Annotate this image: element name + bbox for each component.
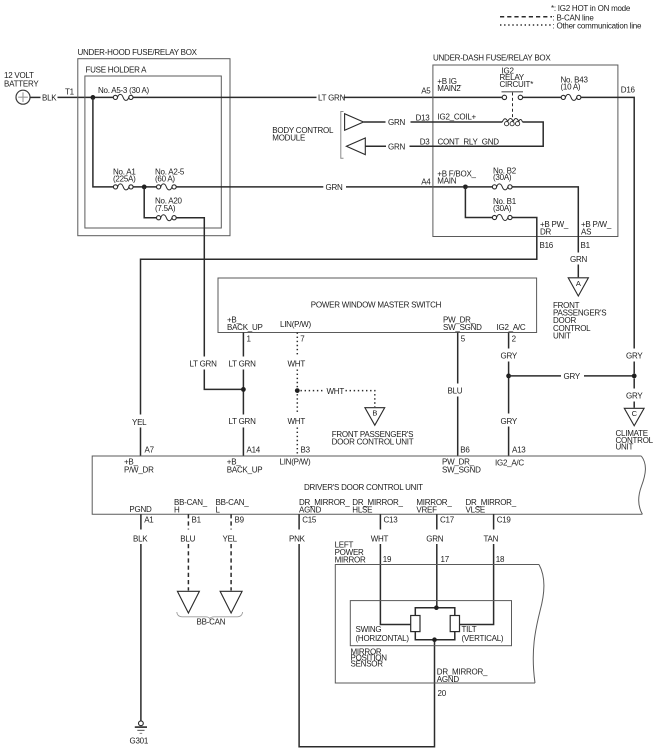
svg-text:BATTERY: BATTERY [4, 79, 39, 88]
wire LT GRN label through junction [242, 370, 244, 415]
svg-text:MIRROR: MIRROR [335, 556, 366, 565]
legend: B-CAN line dashed sample [500, 16, 552, 18]
svg-text:PGND: PGND [129, 505, 152, 514]
svg-text:GRN: GRN [326, 183, 344, 192]
B-CAN arrow (YEL) [220, 591, 242, 613]
svg-text:GRN: GRN [388, 118, 406, 127]
svg-text:A: A [576, 279, 581, 288]
svg-text:D13: D13 [416, 113, 431, 122]
wire right junction down to GRY label [633, 378, 635, 388]
svg-text:LT GRN: LT GRN [229, 359, 257, 368]
svg-text:UNDER-DASH FUSE/RELAY BOX: UNDER-DASH FUSE/RELAY BOX [433, 54, 551, 63]
svg-text:BB-CAN_: BB-CAN_ [216, 498, 250, 507]
wire B1 dashed stub to BLU label [187, 514, 189, 529]
svg-text:LIN(P/W): LIN(P/W) [280, 458, 311, 467]
svg-text:SWING: SWING [356, 625, 382, 634]
connector triangle C (climate control unit) [624, 408, 644, 426]
wire relay coil return to CONT_RLY_GND (D3) [410, 122, 544, 146]
body control module bracket [341, 112, 344, 159]
svg-text:(225A): (225A) [113, 174, 136, 183]
svg-text:LT GRN: LT GRN [190, 359, 218, 368]
wire fuse A2-5 to GRN label [176, 186, 323, 188]
wire GRN label to under-dash A4 [346, 186, 463, 188]
wire fuse A1 to junction [133, 186, 156, 188]
svg-text:19: 19 [383, 555, 392, 564]
svg-text:BLU: BLU [180, 534, 195, 543]
svg-text:CIRCUIT*: CIRCUIT* [500, 80, 534, 89]
wire GRY label to A13 [508, 427, 510, 457]
svg-text:A7: A7 [145, 446, 155, 455]
wire C15 stub to PNK label [298, 514, 300, 529]
driver's door control unit box (torn right edge) [92, 456, 642, 514]
svg-text:A4: A4 [421, 178, 431, 187]
wire dotted branch to WHT label [301, 390, 325, 392]
svg-text:(30A): (30A) [493, 204, 512, 213]
svg-text:G301: G301 [130, 736, 149, 745]
svg-text:IG2_A/C: IG2_A/C [495, 459, 524, 468]
svg-text:MAIN: MAIN [437, 177, 456, 186]
node A4 branch junction [463, 184, 468, 189]
svg-text:GRY: GRY [501, 417, 518, 426]
legend: other communication line dotted sample [500, 24, 552, 26]
B-CAN arrow (BLU) [177, 591, 199, 613]
wire PNK label to mirror AGND pin 20 [299, 544, 434, 747]
wire dashed YEL to B-CAN arrow [230, 544, 232, 591]
node fuse A1 output junction [142, 185, 147, 190]
svg-text:A5: A5 [421, 87, 431, 96]
svg-text:B16: B16 [540, 241, 554, 250]
left power mirror box (torn right edge) [335, 565, 539, 684]
power window master switch box [218, 278, 537, 333]
svg-text:B6: B6 [460, 446, 470, 455]
wire junction down to fuse A20 row [144, 187, 156, 218]
svg-text:D3: D3 [420, 137, 431, 146]
wire LT GRN label to A14 [242, 428, 244, 457]
svg-text:18: 18 [496, 555, 505, 564]
svg-text:H: H [174, 506, 180, 515]
tilt (vertical) sensor element [450, 616, 459, 632]
svg-text:VLSE: VLSE [466, 506, 485, 515]
wire LT GRN label to junction at power window switch feed [204, 370, 243, 390]
mirror position sensor box [350, 601, 511, 646]
fuse holder A box [85, 76, 221, 228]
svg-text:B: B [372, 409, 377, 418]
relay contact [502, 95, 506, 99]
svg-text:P/W_DR: P/W_DR [124, 465, 154, 474]
wire junction to fuse B2 [465, 186, 492, 188]
svg-text:VREF: VREF [416, 506, 437, 515]
sensor top rail [415, 608, 455, 616]
svg-text:YEL: YEL [132, 418, 147, 427]
wire GRN label to relay coil [411, 121, 503, 123]
svg-text:BLK: BLK [133, 534, 148, 543]
node backup feed junction [241, 387, 246, 392]
wire BLK label to ground [140, 544, 142, 721]
svg-text:20: 20 [438, 689, 447, 698]
wire junction down to fuse B1 [465, 187, 492, 218]
svg-text:FUSE HOLDER A: FUSE HOLDER A [86, 66, 148, 75]
svg-text:BLU: BLU [448, 386, 463, 395]
node agnd junction [432, 637, 437, 642]
svg-text:UNDER-HOOD FUSE/RELAY BOX: UNDER-HOOD FUSE/RELAY BOX [78, 48, 198, 57]
wire junction to GRY label (horizontal) [509, 375, 561, 377]
svg-text:AGND: AGND [437, 675, 460, 684]
connector triangle B (front passenger's door control unit) [365, 408, 385, 426]
wire triangle to GRN label (D13) [364, 121, 386, 123]
wire B9 dashed stub to YEL label [230, 514, 232, 529]
wire GRY label to junction [633, 362, 635, 374]
svg-text:MAIN2: MAIN2 [437, 84, 461, 93]
svg-text:SENSOR: SENSOR [351, 660, 384, 669]
wire pin1 to LT GRN label [242, 333, 244, 357]
wire dashed BLU to B-CAN arrow [187, 544, 189, 591]
wire fuse B1 to B16 pin (+B PW_DR) then left [141, 218, 537, 415]
wire fuse A20 output down to LT GRN label [176, 218, 204, 357]
wire C13 stub to WHT label [379, 514, 381, 529]
wire LT GRN label to under-dash A5 / relay contact [344, 96, 503, 98]
svg-text:GRN: GRN [570, 255, 588, 264]
buffer input triangle (CONT_RLY_GND) [346, 138, 365, 155]
svg-text:C19: C19 [497, 516, 512, 525]
svg-text:DRIVER'S DOOR CONTROL UNIT: DRIVER'S DOOR CONTROL UNIT [304, 483, 423, 492]
wire GRY label to right junction [584, 375, 634, 377]
svg-text:HLSE: HLSE [352, 506, 372, 515]
wire dotted WHT label to triangle B [346, 391, 375, 407]
svg-text:BLK: BLK [42, 93, 57, 102]
svg-text:C: C [632, 409, 638, 418]
svg-text:WHT: WHT [288, 417, 306, 426]
svg-text:BACK_UP: BACK_UP [227, 323, 263, 332]
node LIN branch junction [295, 388, 300, 393]
wire C17 stub to GRN label [436, 514, 438, 529]
svg-text:LT GRN: LT GRN [229, 417, 257, 426]
wire GRY label to junction [508, 362, 510, 414]
svg-text:AS: AS [581, 227, 591, 236]
relay contact armature bar [502, 91, 524, 93]
wire pin5 to BLU label [457, 333, 459, 384]
wire junction down to fuse A1 row [93, 97, 113, 186]
svg-text:WHT: WHT [288, 359, 306, 368]
svg-text:D16: D16 [621, 86, 636, 95]
svg-text:B9: B9 [235, 516, 245, 525]
svg-text:(HORIZONTAL): (HORIZONTAL) [356, 634, 410, 643]
wire WHT dotted through junction [296, 370, 298, 415]
svg-text:GRY: GRY [626, 352, 643, 361]
wire fuse A5-3 to LT GRN label [133, 96, 317, 98]
wire fuse B43 to D16 and down (IG2 feed) [581, 97, 634, 348]
svg-text:17: 17 [441, 555, 450, 564]
svg-text:GRY: GRY [626, 392, 643, 401]
svg-text:(10 A): (10 A) [561, 82, 581, 91]
svg-text:LIN(P/W): LIN(P/W) [280, 320, 311, 329]
svg-text:SW_SGND: SW_SGND [442, 465, 481, 474]
relay dashed link [512, 93, 514, 118]
svg-text:(7.5A): (7.5A) [155, 204, 176, 213]
wire GRY label to triangle C [633, 402, 635, 408]
svg-text:GRY: GRY [501, 352, 518, 361]
wire pin2 to GRY label [508, 333, 510, 349]
svg-text:DR: DR [540, 227, 552, 236]
svg-text:LT GRN: LT GRN [318, 94, 346, 103]
wire A1 stub to BLK label [140, 514, 142, 529]
svg-text:AGND: AGND [299, 506, 322, 515]
relay coil IG2 [502, 119, 522, 122]
wire WHT dotted to B3 [296, 428, 298, 457]
svg-text:BACK_UP: BACK_UP [227, 465, 263, 474]
svg-text:WHT: WHT [371, 534, 389, 543]
svg-text:IG2_COIL+: IG2_COIL+ [438, 112, 477, 121]
svg-text:A1: A1 [144, 516, 154, 525]
wire BLK label to fuse A5-3 [58, 96, 114, 98]
svg-text:C13: C13 [384, 516, 399, 525]
node vref junction [434, 605, 439, 610]
svg-text:GRY: GRY [564, 372, 581, 381]
svg-text:DOOR CONTROL UNIT: DOOR CONTROL UNIT [332, 438, 414, 447]
svg-text:: Other communication line: : Other communication line [553, 22, 642, 31]
swing (horizontal) sensor element [411, 616, 420, 632]
under-hood fuse/relay box [78, 59, 230, 236]
svg-text:GRN: GRN [426, 534, 444, 543]
node battery feed junction [91, 95, 96, 100]
buffer output triangle (IG2_COIL+) [345, 114, 364, 131]
svg-text:No. A5-3 (30 A): No. A5-3 (30 A) [98, 86, 150, 95]
node IG2 A/C junction right [632, 374, 637, 379]
under-dash fuse/relay box [433, 65, 618, 237]
svg-text:(60 A): (60 A) [155, 174, 175, 183]
wire BLU label to B6 [457, 397, 459, 457]
svg-text:IG2_A/C: IG2_A/C [497, 323, 526, 332]
wire TAN label to tilt sensor [460, 544, 494, 625]
svg-text:MODULE: MODULE [272, 134, 305, 143]
svg-text:BB-CAN: BB-CAN [197, 617, 226, 626]
BB-CAN underbrace [177, 612, 243, 619]
svg-text:B1: B1 [192, 516, 202, 525]
svg-text:TAN: TAN [484, 534, 499, 543]
svg-text:B1: B1 [581, 241, 591, 250]
svg-text:POWER WINDOW MASTER SWITCH: POWER WINDOW MASTER SWITCH [311, 300, 442, 309]
svg-text:UNIT: UNIT [616, 443, 634, 452]
svg-text:YEL: YEL [223, 534, 238, 543]
svg-text:SW_SGND: SW_SGND [443, 323, 482, 332]
svg-text:(30A): (30A) [493, 173, 512, 182]
wire relay contact to fuse B43 [523, 96, 562, 98]
wire GRN label to buffer input triangle [365, 145, 386, 147]
svg-text:A13: A13 [512, 446, 526, 455]
wire battery to BLK label [30, 96, 40, 98]
svg-text:(VERTICAL): (VERTICAL) [462, 634, 504, 643]
battery symbol [16, 90, 30, 104]
svg-text:C15: C15 [302, 516, 317, 525]
node IG2 A/C junction left [506, 374, 511, 379]
sensor bottom rail [415, 632, 455, 640]
wire YEL label to A7 [140, 428, 142, 457]
svg-text:GRN: GRN [388, 142, 406, 151]
svg-text:T1: T1 [65, 87, 75, 96]
svg-text:TILT: TILT [462, 625, 477, 634]
ground G301 [139, 721, 144, 726]
svg-text:CONT_RLY_GND: CONT_RLY_GND [438, 138, 500, 147]
svg-text:A14: A14 [247, 446, 261, 455]
wire GRN label to triangle A [577, 265, 579, 278]
svg-text:C17: C17 [440, 516, 455, 525]
wire C19 stub to TAN label [493, 514, 495, 529]
wire WHT label to swing sensor [380, 544, 410, 625]
svg-text:B3: B3 [301, 446, 311, 455]
connector triangle A (front passenger's door control unit) [568, 278, 588, 296]
wire fuse B2 to B1 pin (+B P/W_AS) [512, 187, 578, 253]
svg-text:WHT: WHT [327, 387, 345, 396]
svg-text:*: IG2 HOT in ON mode: *: IG2 HOT in ON mode [551, 4, 631, 13]
svg-text:PNK: PNK [289, 534, 306, 543]
svg-text:UNIT: UNIT [553, 331, 571, 340]
wire GRN label to sensor vref rail [436, 544, 438, 607]
wire pin7 LIN dotted to WHT label [296, 333, 298, 357]
